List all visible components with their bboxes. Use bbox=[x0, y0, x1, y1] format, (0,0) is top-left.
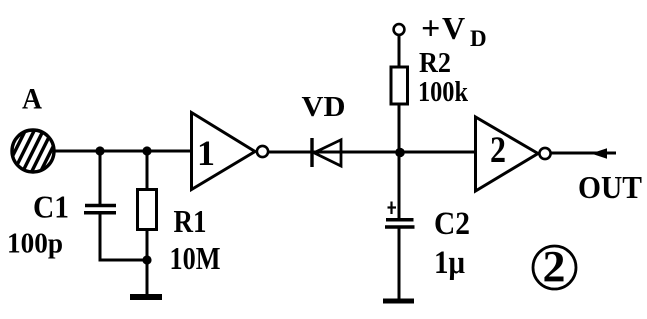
svg-text:2: 2 bbox=[490, 130, 506, 171]
svg-text:+: + bbox=[421, 11, 440, 48]
svg-text:10M: 10M bbox=[170, 240, 221, 276]
svg-text:1μ: 1μ bbox=[434, 245, 465, 281]
svg-text:R1: R1 bbox=[174, 203, 207, 239]
svg-text:R2: R2 bbox=[419, 47, 451, 79]
svg-text:C2: C2 bbox=[434, 206, 470, 242]
svg-text:V: V bbox=[442, 10, 465, 46]
svg-text:A: A bbox=[22, 83, 42, 116]
svg-text:C1: C1 bbox=[33, 189, 69, 225]
svg-text:VD: VD bbox=[302, 91, 346, 123]
svg-text:OUT: OUT bbox=[578, 169, 642, 205]
svg-text:1: 1 bbox=[197, 133, 215, 173]
svg-text:D: D bbox=[470, 26, 487, 51]
svg-text:100p: 100p bbox=[7, 228, 63, 260]
svg-text:100k: 100k bbox=[418, 76, 469, 108]
svg-text:2: 2 bbox=[543, 242, 566, 291]
